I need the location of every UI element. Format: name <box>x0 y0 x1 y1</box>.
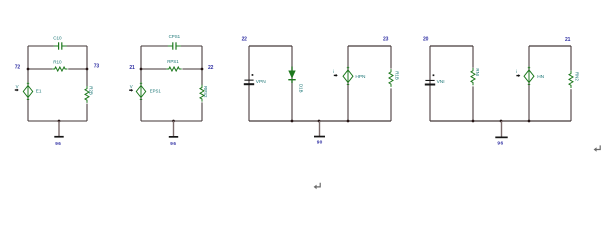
svg-text:96: 96 <box>170 141 176 146</box>
svg-text:R10: R10 <box>53 59 62 64</box>
svg-text:22: 22 <box>242 37 248 43</box>
svg-text:i: i <box>333 69 334 74</box>
svg-text:96: 96 <box>55 141 61 146</box>
svg-text:VPN: VPN <box>256 79 266 85</box>
svg-text:CPS1: CPS1 <box>169 34 181 39</box>
svg-text:V: V <box>16 84 19 89</box>
svg-text:96: 96 <box>497 140 503 146</box>
svg-text:R1B: R1B <box>394 71 399 80</box>
svg-text:V: V <box>130 84 133 89</box>
svg-text:22: 22 <box>208 65 214 71</box>
svg-text:HN: HN <box>537 74 544 80</box>
svg-text:RPS2: RPS2 <box>203 86 208 98</box>
svg-text:HPN: HPN <box>355 74 366 80</box>
svg-text:RN2: RN2 <box>575 72 580 81</box>
svg-text:C10: C10 <box>53 36 62 41</box>
svg-text:RPS1: RPS1 <box>167 59 179 64</box>
svg-text:21: 21 <box>129 65 135 71</box>
svg-text:R2B: R2B <box>88 86 93 95</box>
svg-text:21: 21 <box>565 37 571 43</box>
svg-text:EPS1: EPS1 <box>150 89 162 94</box>
svg-text:90: 90 <box>317 139 323 145</box>
svg-text:72: 72 <box>15 64 21 70</box>
svg-text:23: 23 <box>383 37 389 43</box>
svg-text:RNI: RNI <box>475 68 480 76</box>
svg-text:D1B: D1B <box>298 84 303 93</box>
svg-text:E1: E1 <box>36 89 42 94</box>
svg-text:73: 73 <box>94 64 100 70</box>
svg-text:20: 20 <box>423 37 429 43</box>
svg-text:VNI: VNI <box>437 79 445 85</box>
svg-text:i: i <box>516 69 517 74</box>
